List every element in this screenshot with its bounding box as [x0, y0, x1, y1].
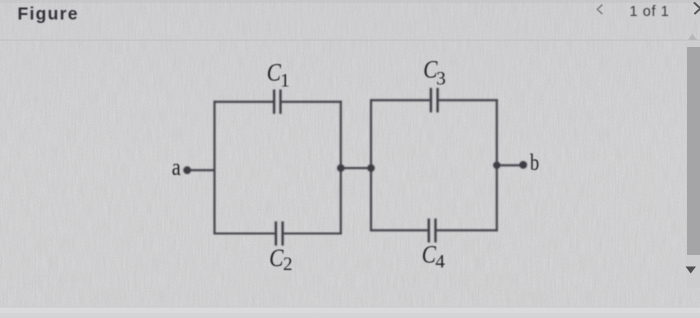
scrollbar down arrow	[686, 267, 697, 274]
node: right-edge junction dot	[493, 162, 500, 169]
right square: top edge with gap for C3	[370, 99, 430, 101]
header separator line	[0, 40, 700, 41]
svg-text:Figure: Figure	[18, 4, 79, 24]
right square: bottom edge with gap for C4	[370, 229, 428, 231]
capacitor C1 plates	[274, 88, 438, 246]
scrollbar thumb	[687, 47, 700, 255]
left square: top edge with gap for C1	[214, 101, 274, 103]
right square: left edge	[370, 99, 372, 231]
scrollbar track	[687, 42, 700, 288]
capacitor C2 plates	[275, 221, 277, 245]
node: terminal b dot	[519, 161, 527, 169]
wire: middle link between squares	[341, 167, 371, 169]
capacitor C4 plates	[428, 219, 430, 243]
capacitor C3 plates	[430, 88, 432, 113]
svg-text:b: b	[530, 150, 539, 175]
pager: left chevron	[597, 5, 602, 13]
bottom separator line	[0, 307, 700, 308]
wire: right square to terminal b	[497, 164, 523, 166]
wire: terminal a to left square	[187, 169, 215, 171]
svg-text:a: a	[172, 155, 181, 181]
left square: bottom edge with gap for C2	[214, 232, 275, 234]
node: mid-right dot	[367, 164, 375, 172]
scrollbar up arrow (faint)	[688, 34, 697, 41]
circuit drawing	[183, 88, 527, 246]
pager: right chevron	[695, 3, 700, 14]
right square: right edge	[496, 99, 498, 231]
top edge vignette	[0, 0, 700, 3]
node: mid-left dot	[337, 164, 345, 172]
left square: right edge	[340, 101, 342, 235]
left square: left edge	[213, 101, 215, 235]
svg-text:1 of 1: 1 of 1	[630, 4, 670, 20]
node: terminal a dot	[183, 166, 191, 174]
